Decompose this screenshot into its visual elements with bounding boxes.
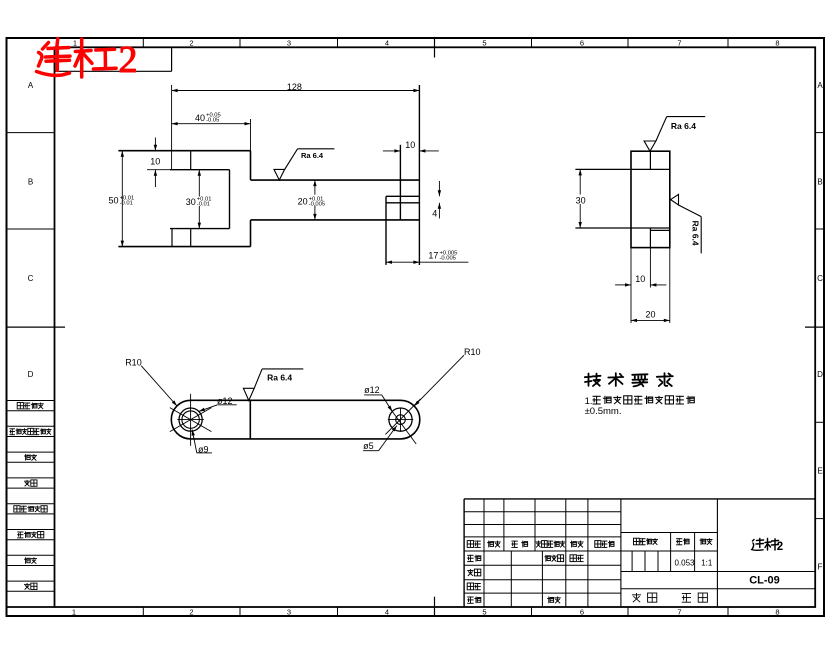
svg-text:Ra 6.4: Ra 6.4	[301, 151, 324, 160]
bottom view stadium outline	[171, 400, 419, 439]
svg-text:5: 5	[482, 39, 486, 48]
svg-text:8: 8	[775, 39, 779, 48]
svg-text:2: 2	[189, 608, 193, 617]
centering mark right	[805, 326, 824, 328]
svg-text:-0.01: -0.01	[197, 202, 210, 208]
svg-text:2: 2	[189, 39, 193, 48]
right zone letters	[817, 81, 823, 572]
leader dia9	[192, 430, 212, 455]
leader dia5	[363, 426, 397, 451]
svg-text:Ra 6.4: Ra 6.4	[671, 121, 696, 131]
svg-text:A: A	[817, 81, 823, 90]
side view inner lines	[575, 151, 669, 247]
dimension 40	[172, 113, 251, 151]
svg-text:4: 4	[385, 608, 389, 617]
leader dia12 left	[199, 396, 237, 411]
dimension 20 side	[631, 248, 670, 323]
leader R10 left	[125, 358, 177, 407]
dimension 50	[109, 151, 135, 247]
svg-text:20: 20	[645, 309, 655, 319]
svg-text:3: 3	[287, 608, 291, 617]
svg-text:±0.5mm.: ±0.5mm.	[585, 406, 622, 417]
svg-text:R10: R10	[125, 358, 142, 368]
svg-text:10: 10	[405, 140, 415, 150]
svg-text:7: 7	[677, 39, 681, 48]
svg-text:F: F	[818, 563, 823, 572]
dimension 10 wall	[147, 138, 170, 188]
svg-text:4: 4	[432, 209, 437, 219]
bottom view left circles	[179, 408, 202, 431]
svg-text:D: D	[28, 370, 34, 379]
svg-text:D: D	[817, 370, 823, 379]
left zone letters	[28, 81, 34, 379]
svg-text:-0.005: -0.005	[309, 201, 325, 207]
front view right end	[386, 85, 419, 265]
svg-text:C: C	[817, 274, 823, 283]
svg-text:30: 30	[576, 195, 586, 205]
svg-text:50: 50	[109, 196, 119, 206]
bottom zone numbers	[72, 608, 780, 617]
dimension 128	[172, 82, 420, 170]
svg-text:30: 30	[186, 197, 196, 207]
dimension 20 rod	[297, 180, 334, 220]
svg-text:ø12: ø12	[364, 385, 380, 395]
svg-text:17: 17	[428, 251, 438, 261]
top zone numbers	[73, 39, 780, 48]
sheet count	[632, 593, 708, 602]
svg-text:8: 8	[775, 608, 779, 617]
svg-text:7: 7	[677, 608, 681, 617]
tech requirements body line	[585, 396, 593, 407]
svg-text:20: 20	[298, 197, 308, 207]
surface finish Ra6.4 side right rotated	[671, 194, 702, 253]
left margin label boxes	[7, 401, 55, 592]
left zone dividers	[7, 133, 55, 229]
front view outline	[118, 151, 419, 247]
surface finish Ra6.4 bottom view	[243, 369, 303, 401]
center marks left	[170, 394, 212, 446]
top zone strip ticks	[143, 38, 728, 47]
svg-text:6: 6	[580, 608, 584, 617]
surface finish Ra6.4 side top	[644, 117, 705, 152]
right zone dividers	[815, 133, 824, 519]
svg-text:E: E	[817, 466, 822, 475]
svg-text:6: 6	[580, 39, 584, 48]
leader dia12 right	[364, 385, 392, 411]
dimension 10 plate	[383, 140, 439, 153]
svg-text:ø5: ø5	[363, 441, 374, 451]
part name lian gan 2	[752, 539, 779, 551]
surface finish Ra6.4 front	[274, 149, 334, 180]
dimension 17	[386, 250, 468, 264]
svg-text:B: B	[28, 178, 33, 187]
svg-text:10: 10	[635, 274, 645, 284]
red title text lian gang 2	[37, 39, 117, 78]
side view outline	[631, 151, 670, 247]
svg-text:1: 1	[72, 608, 76, 617]
inner frame	[55, 47, 816, 607]
dimension 30 notch	[185, 170, 213, 229]
svg-text:1:1: 1:1	[701, 559, 713, 568]
front view notch	[170, 170, 230, 229]
dimension 10 side	[615, 248, 666, 323]
svg-text:2: 2	[119, 39, 138, 81]
svg-text:Ra 6.4: Ra 6.4	[691, 221, 701, 246]
leader R10 right	[414, 347, 480, 406]
stage mark weight scale labels	[634, 538, 713, 545]
front view wall hole lines	[172, 151, 191, 247]
svg-text:1: 1	[73, 39, 77, 48]
svg-text:2: 2	[777, 541, 783, 553]
svg-text:4: 4	[385, 39, 389, 48]
center marks right	[385, 399, 420, 444]
svg-text:-0.005: -0.005	[439, 255, 455, 261]
left strip bottom segment	[7, 606, 55, 608]
svg-text:B: B	[817, 178, 822, 187]
svg-text:C: C	[28, 274, 34, 283]
dimension 4 slot	[432, 181, 441, 219]
svg-text:5: 5	[482, 608, 486, 617]
svg-text:10: 10	[150, 156, 160, 166]
title block grid	[464, 499, 815, 607]
svg-text:128: 128	[287, 82, 302, 92]
tech requirements heading ji shu yao qiu	[585, 373, 673, 386]
svg-text:R10: R10	[464, 347, 481, 357]
svg-text:40: 40	[195, 113, 205, 123]
dimension 30 side	[574, 169, 587, 228]
svg-text:Ra 6.4: Ra 6.4	[267, 372, 292, 382]
svg-text:-0.01: -0.01	[120, 200, 133, 206]
left margin labels	[10, 403, 52, 590]
centering mark top	[434, 38, 436, 58]
bottom zone strip ticks	[143, 607, 728, 616]
svg-text:-0.05: -0.05	[206, 118, 219, 124]
svg-text:CL-09: CL-09	[749, 575, 780, 587]
title block row labels	[467, 541, 614, 604]
title box top-left	[55, 47, 172, 71]
svg-text:A: A	[28, 81, 34, 90]
bottom view right circles	[389, 408, 412, 431]
svg-text:3: 3	[287, 39, 291, 48]
svg-text:0.053: 0.053	[674, 559, 695, 568]
centering mark bottom	[434, 597, 436, 616]
centering mark left	[7, 326, 66, 328]
